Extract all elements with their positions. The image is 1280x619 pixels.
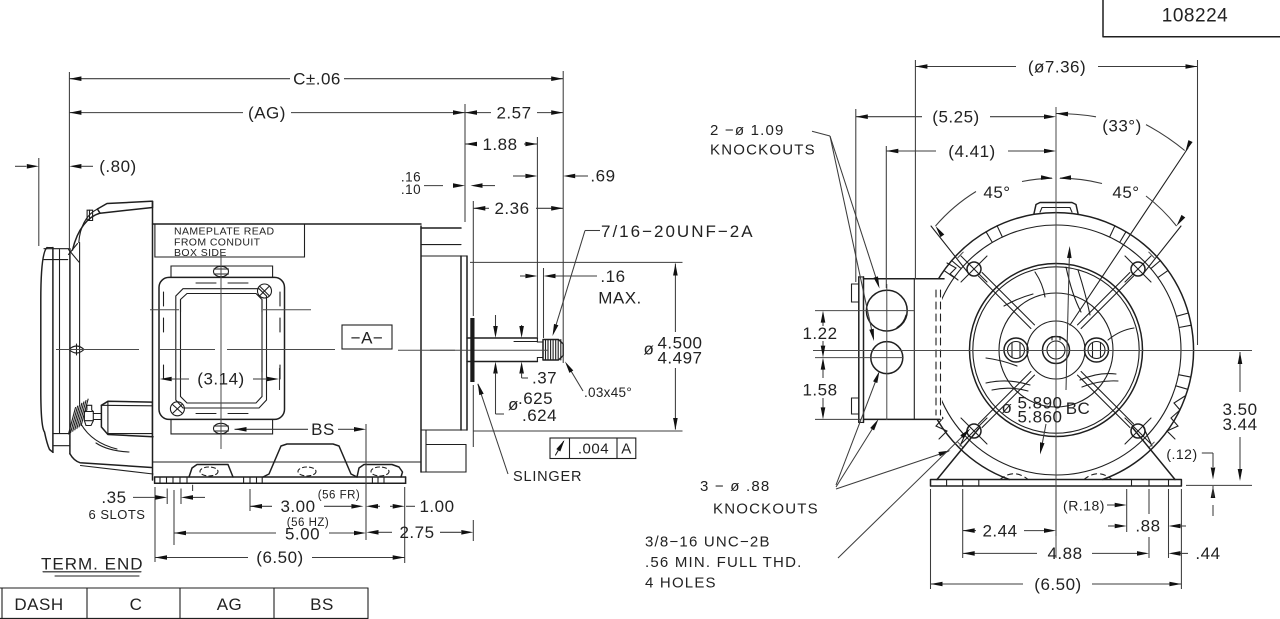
knockout circle upper — [866, 290, 907, 331]
BC center marks through bolts — [958, 252, 964, 258]
shaft threads — [543, 340, 563, 361]
svg-text:(56 FR): (56 FR) — [318, 489, 360, 501]
rim ribs — [1110, 226, 1115, 237]
svg-text:3 − ø .88: 3 − ø .88 — [700, 478, 770, 495]
svg-text:C: C — [130, 595, 143, 614]
left 45deg arc — [936, 192, 977, 227]
svg-text:6 SLOTS: 6 SLOTS — [89, 507, 146, 522]
dimension (33deg) arc — [1056, 113, 1096, 116]
slinger — [470, 318, 474, 382]
diagonal extensions beyond circle up — [1143, 226, 1181, 274]
svg-text:2.44: 2.44 — [982, 521, 1017, 540]
dimension 3.00 (56 FR) — [250, 505, 272, 507]
corner bolt hole bottom-left — [967, 424, 981, 438]
svg-text:(5.25): (5.25) — [932, 108, 979, 127]
dimension .88 — [1115, 524, 1127, 529]
svg-text:(4.41): (4.41) — [948, 142, 995, 161]
corner bolt hole top-left — [967, 262, 981, 276]
knockout circle lower — [871, 342, 903, 374]
svg-text:3/8−16 UNC−2B: 3/8−16 UNC−2B — [645, 534, 771, 551]
svg-text:3.44: 3.44 — [1222, 415, 1257, 434]
end view outer circle — [918, 213, 1193, 480]
dimension (5.25) — [856, 116, 922, 118]
svg-text:.10: .10 — [401, 182, 421, 197]
svg-text:AG: AG — [217, 595, 243, 614]
ext line 7.36 right — [1197, 60, 1199, 345]
foot pad hidden arcs — [1000, 474, 1028, 480]
base plate slot ticks — [159, 477, 161, 483]
svg-text:TERM. END: TERM. END — [41, 555, 144, 574]
ext line bracket face AG — [464, 104, 466, 222]
end view rim inner circle — [931, 225, 1181, 475]
svg-text:.35: .35 — [101, 488, 126, 507]
svg-text:KNOCKOUTS: KNOCKOUTS — [713, 501, 819, 518]
ext line 7.36 left — [914, 60, 916, 279]
svg-text:(.12): (.12) — [1166, 446, 1197, 462]
svg-text:.69: .69 — [590, 167, 615, 186]
box bottom ext line — [815, 418, 861, 420]
corner bolt hole top-right — [1131, 262, 1145, 276]
dimension .16 MAX incomplete thread — [520, 275, 525, 277]
cap joint marks — [44, 248, 70, 250]
dimension BS — [235, 428, 309, 430]
dimension 4.88 — [963, 552, 1037, 554]
svg-text:1.58: 1.58 — [802, 381, 837, 400]
end view face circles — [970, 264, 1143, 437]
foot slot right — [371, 467, 389, 476]
svg-text:(33°): (33°) — [1102, 117, 1142, 136]
svg-text:4.497: 4.497 — [657, 349, 702, 368]
ext line 4.41 left — [885, 146, 887, 288]
drain stem — [93, 413, 101, 415]
dimension (7.36) — [915, 66, 1016, 68]
conduit box bottom flange — [171, 419, 273, 434]
shaft neck — [537, 341, 543, 343]
right 45deg arc — [1060, 178, 1102, 183]
dimension shaft diameter 4.500/4.497 — [470, 261, 683, 263]
svg-text:(R.18): (R.18) — [1063, 497, 1105, 513]
shaft — [467, 337, 537, 339]
svg-text:1.88: 1.88 — [482, 135, 517, 154]
through-bolt head left — [1004, 338, 1028, 362]
box lips — [852, 284, 859, 302]
foot pad left — [189, 465, 233, 478]
svg-text:NAMEPLATE READ: NAMEPLATE READ — [174, 225, 275, 237]
rim jag lower right — [1167, 396, 1185, 439]
diagonal extensions beyond circle down — [1143, 426, 1152, 446]
dimension .37 — [495, 315, 497, 327]
end view hub circle — [999, 293, 1113, 407]
box horizontal centerline upper — [150, 309, 179, 311]
svg-text:.03x45°: .03x45° — [584, 385, 632, 400]
svg-text:2.57: 2.57 — [496, 104, 531, 123]
svg-text:45°: 45° — [983, 183, 1010, 202]
through-bolt head right — [1085, 338, 1109, 362]
svg-text:.004: .004 — [578, 441, 609, 458]
fan blades seen through face — [1066, 267, 1081, 312]
conduit box bottom screw — [214, 423, 229, 433]
shaft keyway — [1052, 337, 1060, 341]
ext line C fan cover face — [68, 72, 70, 250]
svg-text:1.00: 1.00 — [419, 497, 454, 516]
drain box — [101, 401, 152, 405]
cover screw top-right — [258, 284, 272, 298]
ext line thread start — [536, 137, 538, 338]
fan cover body — [59, 250, 61, 434]
svg-text:ø: ø — [1002, 398, 1013, 417]
foot pad right — [357, 465, 403, 478]
dimension 1.88 — [465, 143, 476, 145]
grease fitting on fan cover centerline — [69, 346, 84, 353]
title block border — [1103, 0, 1280, 37]
svg-text:MAX.: MAX. — [598, 289, 642, 308]
conduit box outer body — [159, 277, 285, 419]
knockout centerline vertical — [886, 284, 888, 420]
conduit box cover plate — [176, 289, 267, 408]
ext line 5.25 left — [855, 109, 857, 282]
svg-text:BS: BS — [310, 595, 334, 614]
svg-text:4 HOLES: 4 HOLES — [645, 575, 717, 592]
dimension .69 — [525, 174, 537, 179]
svg-text:7/16−20UNF−2A: 7/16−20UNF−2A — [601, 222, 755, 241]
svg-text:1.22: 1.22 — [802, 324, 837, 343]
drain valve fitting — [84, 405, 93, 425]
svg-text:SLINGER: SLINGER — [513, 469, 582, 485]
side view: fan cover end cap — [41, 248, 53, 453]
ext line left cap — [38, 158, 40, 246]
shaft flat — [514, 341, 537, 343]
svg-text:(.80): (.80) — [99, 157, 136, 176]
nameplate box — [155, 224, 305, 257]
dimension 2.57 — [465, 112, 491, 114]
motor horizontal centerline — [56, 349, 139, 351]
dimension 5.00 (56 HZ) — [174, 532, 276, 534]
dimension (3.14) — [160, 377, 172, 382]
conduit box end view body — [864, 279, 943, 420]
ext line thread relief — [543, 268, 545, 338]
svg-text:3.00: 3.00 — [280, 497, 315, 516]
dimension 3.50/3.44 — [1239, 352, 1241, 392]
svg-text:(6.50): (6.50) — [1034, 575, 1081, 594]
dimension 2.75 — [461, 530, 473, 535]
svg-text:(AG): (AG) — [248, 104, 286, 123]
ext line shaft end — [562, 71, 564, 363]
svg-text:BC: BC — [1066, 399, 1091, 418]
hidden circle dashes in box — [935, 290, 937, 415]
svg-text:.624: .624 — [522, 406, 557, 425]
motor frame body — [152, 201, 154, 480]
ext lines bottom end view — [930, 489, 932, 589]
svg-text:.88: .88 — [1135, 517, 1160, 536]
conduit box hidden edge dashes — [163, 292, 165, 306]
dimension (6.50) end view — [931, 583, 1024, 585]
svg-text:(ø7.36): (ø7.36) — [1028, 57, 1086, 76]
dimension 2.44 — [963, 530, 976, 532]
through-bolt rod diagonals — [1078, 273, 1130, 325]
end view vertical centerline — [1055, 107, 1057, 558]
knockout1 horizontal centerline — [815, 310, 915, 312]
fan cover bottom band — [53, 433, 70, 435]
fan cover shoulder curves — [73, 213, 101, 250]
dimension 1.58 — [822, 363, 824, 378]
end view horizontal centerline — [813, 350, 1252, 352]
conduit box top flange — [171, 266, 273, 277]
feet base plate side view — [155, 476, 406, 478]
end view inner hub circle — [1027, 321, 1085, 379]
corner bolt hole bottom-right — [1131, 424, 1145, 438]
fan cover bottom edge — [70, 454, 152, 468]
slinger label — [478, 384, 508, 474]
drain hatch marks — [69, 408, 76, 435]
dimension C+-.06 — [69, 78, 290, 80]
svg-text:BOX SIDE: BOX SIDE — [174, 247, 227, 259]
svg-text:DASH: DASH — [14, 595, 63, 614]
plate slot ticks end view — [946, 480, 948, 487]
BC leader up — [1066, 250, 1070, 390]
bracket bottom boss — [426, 444, 466, 446]
right gusset — [1132, 427, 1175, 480]
foot slot middle — [298, 467, 316, 476]
svg-text:A: A — [621, 441, 632, 458]
foot slot left — [200, 467, 218, 476]
svg-text:.56 MIN. FULL THD.: .56 MIN. FULL THD. — [645, 554, 802, 571]
rim jag upper left near box — [947, 263, 958, 280]
plate bottom ext line right — [1186, 484, 1252, 486]
fan cover roof slab — [97, 201, 152, 213]
shaft end circle — [1043, 337, 1070, 364]
svg-text:BS: BS — [311, 420, 335, 439]
svg-text:2.36: 2.36 — [494, 199, 529, 218]
svg-text:(56 HZ): (56 HZ) — [287, 517, 329, 529]
shaft centerline — [430, 349, 548, 351]
dimension (4.41) — [886, 150, 936, 152]
svg-text:2 −ø 1.09: 2 −ø 1.09 — [710, 122, 785, 139]
datum flag -A- — [342, 325, 392, 349]
svg-text:45°: 45° — [1112, 183, 1139, 202]
svg-text:2.75: 2.75 — [399, 523, 434, 542]
conduit box vertical centerline — [220, 252, 222, 449]
dimension .44 — [1169, 551, 1181, 556]
cover screw bottom-left — [170, 402, 184, 416]
ext line slinger 2.36 — [472, 201, 474, 316]
svg-text:.44: .44 — [1195, 544, 1220, 563]
svg-text:(3.14): (3.14) — [197, 370, 244, 389]
box inner edge — [913, 279, 915, 420]
conduit box cover plate inner line — [181, 294, 263, 404]
center raised foot — [263, 444, 357, 477]
dimension 1.22 — [822, 317, 824, 326]
dimension 2.36 — [473, 207, 489, 209]
svg-text:.16: .16 — [600, 267, 625, 286]
svg-text:108224: 108224 — [1162, 6, 1228, 27]
conduit box top interior dashes — [196, 282, 216, 284]
dimension 1.00 — [366, 504, 378, 509]
svg-text:.37: .37 — [532, 369, 557, 388]
svg-text:4.88: 4.88 — [1047, 544, 1082, 563]
knockout2 horizontal centerline — [815, 357, 903, 359]
svg-text:5.860: 5.860 — [1017, 407, 1062, 426]
dimension (AG) — [69, 112, 243, 114]
svg-text:KNOCKOUTS: KNOCKOUTS — [710, 142, 816, 159]
33deg radial line — [1070, 148, 1188, 325]
dimension (.80) — [15, 165, 27, 167]
top tab — [1034, 203, 1078, 214]
ext lines bottom dims side view — [154, 487, 156, 562]
svg-text:−A−: −A− — [351, 329, 384, 348]
rim jag lower left — [929, 396, 947, 439]
feature control frame runout .004 A — [550, 438, 636, 459]
conduit box top screw — [214, 266, 229, 276]
svg-text:ø: ø — [644, 340, 655, 359]
left gusset — [937, 427, 980, 480]
fan cover top clip — [87, 210, 93, 220]
end view feet plate — [931, 480, 1182, 487]
BC leader down — [1041, 424, 1046, 450]
svg-text:C±.06: C±.06 — [293, 70, 341, 89]
svg-text:(6.50): (6.50) — [256, 548, 303, 567]
drive end bracket — [421, 227, 461, 229]
dimension (6.50) side — [155, 557, 248, 559]
table DASH C AG BS — [0, 587, 368, 589]
